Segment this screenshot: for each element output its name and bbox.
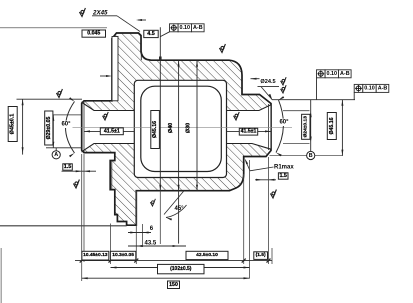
feature control frame right 2 [354,84,389,92]
roughness on ext line left [56,89,62,98]
roughness in bore left [103,112,109,120]
label dia29 [45,111,53,145]
roughness on top edge [219,44,225,53]
dim line dia24 right [310,100,312,156]
svg-text:Ø40: Ø40 [168,123,174,133]
dim line x197 [196,60,198,191]
feature control frame right 1 [317,70,352,78]
roughness right a [281,77,287,85]
datum A [52,151,60,159]
central cavity outer contour [134,80,226,177]
frame line left-bottom [0,248,2,303]
label dia45.16 right [327,113,336,140]
extension line y99 [17,98,83,100]
svg-text:45°: 45° [175,206,185,212]
60 deg arc right [276,100,283,153]
extension line ext x110 [110,224,112,265]
label 60deg left [60,121,73,128]
fcf2 connector [353,92,355,99]
svg-text:Ø24±0.13: Ø24±0.13 [302,116,308,138]
face leader arrow [100,75,109,77]
leader R1max b [246,161,251,171]
extension line ext x84 [83,154,85,262]
svg-text:43.5: 43.5 [145,240,157,246]
roughness right of cavity [234,112,240,120]
horizontal centerline [72,126,292,128]
svg-text:Ø45±0.1: Ø45±0.1 [10,114,16,135]
svg-text:Ø30: Ø30 [185,123,191,133]
extension line ext x272 [271,248,273,264]
extension line ext x268 [268,157,270,264]
hub face chamfer line [83,101,85,153]
central cavity inner contour [141,86,222,171]
dim line x178 [178,60,180,243]
frame line top [0,27,107,29]
extension line ext x136 [135,191,137,264]
svg-text:42.5±0.10: 42.5±0.10 [196,252,218,258]
extension line ext x81 [81,154,83,281]
dim line dia45.16 right [341,100,343,156]
dim 42.5 [186,251,228,259]
svg-text:Ø45.16: Ø45.16 [329,117,335,134]
dim line dia29 [52,115,54,148]
svg-text:A: A [54,152,58,158]
dim line 1.5 left [62,170,97,172]
svg-text:0.10: 0.10 [364,85,375,91]
svg-text:10.3±0.05: 10.3±0.05 [112,252,134,258]
svg-text:Ø24.5: Ø24.5 [260,79,275,85]
svg-text:10.45±0.13: 10.45±0.13 [83,252,108,258]
roughness symbol top-left [79,8,85,17]
extension line ext x249 [249,160,251,279]
dim 6 [128,232,151,234]
svg-text:B: B [309,153,313,159]
dim line 1.5 right [255,179,276,181]
chamfer note underline [92,15,117,17]
dim line dia45 left [22,99,24,154]
boxed note 0.045 [82,30,106,37]
dim (1.5) [254,252,268,260]
svg-text:60°: 60° [61,122,71,128]
svg-text:Ø29±0.05: Ø29±0.05 [46,117,52,140]
svg-text:0.10: 0.10 [180,25,191,31]
boxed dim 4.5 [144,30,158,37]
bore top wall extension right [283,110,310,112]
svg-text:150: 150 [169,282,178,288]
chamfer 45 extension [164,191,184,215]
roughness right b [281,85,287,93]
svg-text:1.5: 1.5 [279,173,287,179]
dim 41.5 right [227,130,272,132]
dim 10.3 [110,251,135,260]
extension line ext x243 [243,174,245,264]
svg-text:R1max: R1max [274,165,294,171]
datum B [307,151,315,159]
flange rib chamfer line [111,161,113,190]
dim line x160 [159,27,161,190]
dim (102±0.5) [111,267,250,269]
dim 150 [82,277,250,279]
svg-text:(102±0.5): (102±0.5) [170,266,192,272]
svg-text:A-B: A-B [378,85,388,91]
extension line y99 right [272,99,355,101]
svg-text:A-B: A-B [340,71,350,77]
part cross-section body (hatched) [82,33,271,225]
svg-text:Ø45.16: Ø45.16 [152,121,158,138]
bore bottom wall extension right [283,143,310,145]
boss face chamfer line [268,104,270,150]
label dia24 right [302,114,310,139]
roughness bottom right [270,190,276,199]
dim 41.5 left [84,130,134,132]
extension line x141 [140,38,142,61]
45 deg arc [166,205,187,218]
bore with countersinks [82,103,271,152]
fcf1 connector [316,78,318,100]
ext line y155 right [270,155,344,157]
svg-text:41.5±1: 41.5±1 [241,129,257,135]
label dia45.16 cavity [151,111,160,149]
small arrow at flange top [138,19,146,21]
svg-text:60°: 60° [279,120,289,126]
label dia45 left [8,107,17,142]
tick on top edge [159,57,162,61]
dim 10.45 [82,251,109,260]
60 deg arc left [66,102,75,154]
fcf leader diagonal [160,32,169,37]
roughness below bottom edge [150,199,155,206]
label 60deg right [278,119,291,126]
flange bottom extension line to margin [0,225,127,227]
svg-text:0.10: 0.10 [327,71,338,77]
leader R1max a [250,167,274,171]
flange face relief slot [112,37,118,101]
svg-text:A-B: A-B [193,25,203,31]
extension line ext x142 [142,224,144,247]
dim 43.5 [128,245,186,247]
svg-text:41.5±1: 41.5±1 [104,128,120,134]
datum A stem [55,148,57,151]
svg-text:4.5: 4.5 [147,31,155,37]
ext x160 below [159,191,161,244]
dim row tolerances [75,260,272,262]
ext line dia29 bottom [46,147,82,149]
svg-text:0.045: 0.045 [87,31,100,37]
svg-text:(1.5): (1.5) [256,252,266,258]
boxed dim 1.5 left [63,164,73,170]
feature control frame top [170,24,205,32]
roughness bottom-left face [73,180,79,189]
ext line dia29 top [46,114,82,116]
leader chamfer [117,16,140,32]
boxed dim 1.5 right [278,173,288,179]
svg-text:1.5: 1.5 [64,164,72,170]
